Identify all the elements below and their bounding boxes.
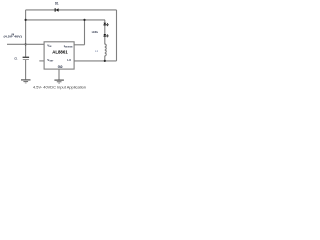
- ground IC: [54, 80, 64, 84]
- node junction ISENSE rail2: [83, 19, 85, 21]
- wire VSET stub: [39, 60, 44, 62]
- wire left vertical from top rail down to capacitor: [25, 10, 27, 57]
- node junction rail2 left: [25, 19, 27, 21]
- wire right rail vertical: [116, 10, 118, 61]
- diode D1: [55, 8, 59, 12]
- wire ISENSE to rail2 horizontal: [74, 44, 84, 46]
- wire LED chain vertical upper: [104, 20, 106, 45]
- LED 1: [103, 23, 108, 26]
- svg-text:(4.5V- 40V): (4.5V- 40V): [4, 35, 22, 39]
- svg-text:L1: L1: [95, 49, 99, 53]
- svg-text:D1: D1: [55, 2, 59, 6]
- wire top rail VIN to D1 to right: [26, 9, 117, 11]
- wire GND pin down: [58, 69, 60, 80]
- svg-text:C1: C1: [14, 56, 17, 60]
- capacitor C1: [23, 57, 30, 60]
- wire capacitor to ground: [25, 60, 27, 79]
- svg-text:LEDs: LEDs: [92, 30, 98, 34]
- wire inductor to junction vertical lower: [104, 56, 106, 61]
- wire second rail to LED anode: [26, 19, 105, 21]
- ground left: [21, 79, 31, 83]
- svg-text:4.5V- 40VDC Input Application: 4.5V- 40VDC Input Application: [33, 85, 86, 89]
- node junction VIN: [25, 43, 27, 45]
- LED 2: [103, 34, 108, 37]
- wire VIN input: [7, 43, 44, 45]
- node junction inductor bottom: [104, 60, 106, 62]
- inductor L1 coil: [105, 44, 107, 56]
- op-amp U1 AL8861 IC box: [44, 42, 74, 69]
- svg-text:GND: GND: [58, 65, 63, 69]
- wire LX to bottom right: [74, 60, 116, 62]
- svg-text:AL8861: AL8861: [52, 50, 68, 55]
- wire ISENSE vertical: [84, 20, 86, 45]
